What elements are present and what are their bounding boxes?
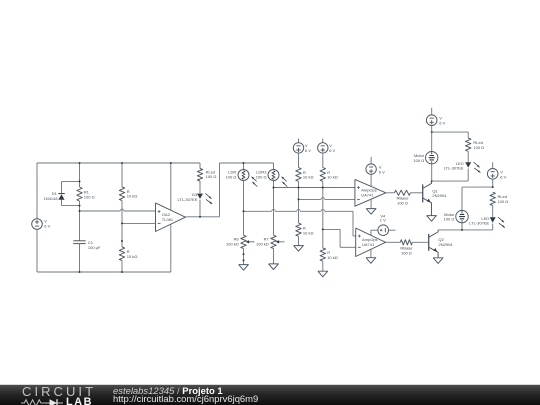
node <box>121 162 123 164</box>
node <box>79 205 81 207</box>
node <box>121 222 123 224</box>
resistor RBase (lower) <box>386 240 429 256</box>
op-amp U3 (AmpOps UA741 lower) <box>356 228 386 256</box>
svg-text:LTL-307EE: LTL-307EE <box>469 221 489 226</box>
wire to lower amp + input <box>244 209 356 236</box>
node <box>121 240 123 242</box>
svg-text:100 Ω: 100 Ω <box>444 217 455 222</box>
svg-text:6 V: 6 V <box>500 174 506 179</box>
node <box>243 253 245 255</box>
node <box>431 180 433 182</box>
resistor R 10k <box>320 168 338 248</box>
node <box>199 216 201 218</box>
svg-text:6 V: 6 V <box>329 148 335 153</box>
svg-text:UA741: UA741 <box>361 193 374 198</box>
node <box>79 180 81 182</box>
resistor R 10k upper <box>119 163 137 241</box>
node <box>431 131 433 133</box>
wire to upper amp - input <box>299 198 355 200</box>
svg-text:10 kΩ: 10 kΩ <box>127 194 138 199</box>
node <box>322 228 324 230</box>
voltage source V 6V <box>487 162 506 187</box>
wire to upper amp + input <box>274 187 355 189</box>
svg-text:100 kΩ: 100 kΩ <box>256 241 269 246</box>
capacitor C1 <box>73 240 101 272</box>
wire V- pin <box>370 250 372 258</box>
node <box>273 187 275 189</box>
voltage source V 6V (left) <box>32 163 51 272</box>
svg-text:10 kΩ: 10 kΩ <box>327 255 338 260</box>
resistor R1 <box>77 163 95 241</box>
svg-text:100 Ω: 100 Ω <box>473 145 484 150</box>
wire op-amp + input <box>80 209 156 211</box>
ground <box>427 216 437 222</box>
LED D3 <box>177 192 212 217</box>
ground <box>366 258 376 264</box>
wire op-amp - input <box>122 222 156 224</box>
svg-text:TL081: TL081 <box>162 217 174 222</box>
svg-text:100 Ω: 100 Ω <box>226 175 237 180</box>
resistor R 10k lower <box>119 241 137 272</box>
node <box>243 210 245 212</box>
potentiometer R7 <box>256 235 284 264</box>
svg-text:100 kΩ: 100 kΩ <box>226 241 239 246</box>
node <box>461 229 463 231</box>
resistor R 10k <box>320 248 338 271</box>
svg-text:2N2904: 2N2904 <box>439 242 454 247</box>
node <box>79 271 81 273</box>
svg-text:6 V: 6 V <box>439 120 445 125</box>
photoresistor LDR3 <box>256 163 288 235</box>
motor Motor (lower) <box>444 187 469 230</box>
ground <box>269 264 279 270</box>
diode D1 <box>44 181 80 205</box>
node <box>79 210 81 212</box>
transistor Q1 <box>423 181 447 216</box>
wire <box>462 186 493 188</box>
wire V+ pin <box>371 230 378 235</box>
svg-text:1 V: 1 V <box>380 218 386 223</box>
ground <box>239 265 249 271</box>
voltage source V 6V <box>318 139 336 168</box>
voltage source V4 <box>378 214 396 236</box>
node <box>170 162 172 164</box>
node <box>79 162 81 164</box>
resistor RBase (upper) <box>386 190 423 205</box>
node <box>121 271 123 273</box>
svg-text:2N2904: 2N2904 <box>432 193 447 198</box>
LED LTL-307EE (upper) <box>444 161 481 181</box>
CircuitLab logo <box>22 386 94 405</box>
wire V- pin <box>370 199 372 209</box>
voltage source V 6V <box>366 157 385 174</box>
node <box>322 187 324 189</box>
op-amp U2 (AmpOps UA741 upper) <box>355 179 386 206</box>
svg-text:1N4148: 1N4148 <box>44 196 59 201</box>
svg-text:LTL-307EE: LTL-307EE <box>177 197 197 202</box>
transistor Q2 <box>429 230 454 258</box>
svg-text:6 V: 6 V <box>305 148 311 153</box>
resistor RLed (upper right) <box>466 132 485 162</box>
wire V+ pin <box>370 174 372 186</box>
node <box>298 198 300 200</box>
svg-text:100 Ω: 100 Ω <box>498 199 509 204</box>
wire to lower amp - input <box>323 229 356 247</box>
voltage source V 6V <box>293 139 311 168</box>
wire op-amp output <box>185 163 273 217</box>
wire <box>37 162 200 164</box>
svg-text:100 Ω: 100 Ω <box>401 250 412 255</box>
svg-text:UA741: UA741 <box>362 242 375 247</box>
potentiometer R6 <box>226 235 254 264</box>
ground <box>366 209 376 215</box>
node <box>298 187 300 189</box>
wire op-amp V- pin <box>170 224 172 272</box>
wire <box>37 271 171 273</box>
resistor RLed <box>197 163 216 193</box>
svg-text:10 kΩ: 10 kΩ <box>327 175 338 180</box>
svg-text:100 Ω: 100 Ω <box>84 194 95 199</box>
svg-text:100 Ω: 100 Ω <box>256 175 267 180</box>
resistor R 10k <box>296 223 314 246</box>
photoresistor LDR <box>226 163 258 235</box>
svg-text:10 kΩ: 10 kΩ <box>303 175 314 180</box>
LED LTL-307EE (lower) <box>469 216 505 230</box>
node <box>243 259 245 261</box>
svg-text:100 µF: 100 µF <box>88 245 101 250</box>
svg-text:100 Ω: 100 Ω <box>206 174 217 179</box>
wire <box>438 229 493 231</box>
resistor RLed (lower right) <box>490 192 508 217</box>
svg-text:100 Ω: 100 Ω <box>397 200 408 205</box>
resistor R 10k <box>296 168 314 224</box>
ground <box>318 271 328 277</box>
voltage source V 6V <box>426 108 445 132</box>
ground <box>294 246 304 252</box>
op-amp OA2 <box>156 203 186 232</box>
svg-text:6 V: 6 V <box>44 224 50 229</box>
svg-text:100 Ω: 100 Ω <box>413 158 424 163</box>
node <box>492 186 494 188</box>
wire <box>432 131 469 133</box>
svg-text:10 kΩ: 10 kΩ <box>303 230 314 235</box>
svg-text:6 V: 6 V <box>379 169 385 174</box>
ground <box>433 258 443 264</box>
wire <box>432 180 469 182</box>
svg-text:LTL-307EE: LTL-307EE <box>444 166 464 171</box>
svg-text:10 kΩ: 10 kΩ <box>127 254 138 259</box>
motor Motor (upper) <box>413 132 437 181</box>
wire op-amp V+ pin <box>170 163 172 210</box>
node <box>243 162 245 164</box>
